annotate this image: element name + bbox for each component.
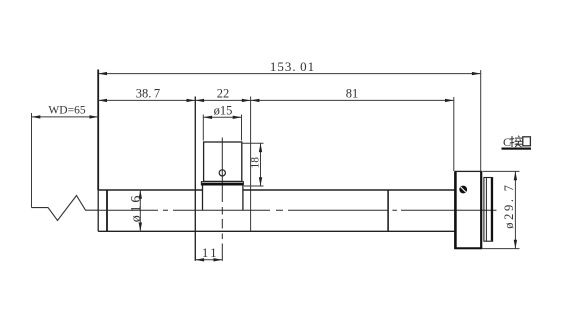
vertical port body <box>204 142 242 181</box>
object plane zigzag <box>32 196 99 221</box>
extension line x=195.3 (between 38.7 and 22, down to 11 dim) <box>194 97 196 261</box>
svg-text:ø15: ø15 <box>214 103 233 117</box>
C-mount block bottom thick edge <box>454 247 482 249</box>
set screw slot highlight <box>461 187 466 192</box>
dimension 18 top extension <box>243 142 264 144</box>
dimension 11 line <box>195 258 222 261</box>
dimension 18 line <box>259 143 262 186</box>
port flange left edge <box>200 181 202 185</box>
label C-mount underline <box>502 148 532 150</box>
C-mount block outline <box>455 171 481 248</box>
svg-text:ø16: ø16 <box>129 193 144 222</box>
svg-text:11: 11 <box>202 246 219 260</box>
C-thread ring inner vertical <box>485 178 487 242</box>
C-thread ring outline <box>484 178 493 242</box>
extension line right main (x=480.7) <box>480 70 482 171</box>
dimension 153.01 line <box>98 72 481 75</box>
dimension dia15 line <box>203 116 241 119</box>
C-mount block right thick edge <box>480 171 482 248</box>
dimension 81 line <box>251 99 454 102</box>
dimension dia29.7 line <box>514 171 517 248</box>
extension line WD left (x=31.5) <box>31 113 33 208</box>
svg-text:153. 01: 153. 01 <box>270 59 315 74</box>
svg-text:38. 7: 38. 7 <box>136 87 160 101</box>
svg-text:22: 22 <box>217 87 230 101</box>
extension line dia15 right <box>241 115 243 141</box>
tube joint vertical x=388 <box>387 190 389 231</box>
port screw circle <box>219 170 225 176</box>
svg-text:ø29. 7: ø29. 7 <box>502 182 516 228</box>
svg-text:C: C <box>503 135 511 149</box>
port flange bottom thick line <box>201 183 243 186</box>
main tube bottom edge <box>98 230 455 232</box>
tube front rim vertical <box>106 190 108 231</box>
svg-text:81: 81 <box>346 87 359 101</box>
dimension WD=65 line <box>32 115 99 118</box>
port centerline (vertical dash-dot) <box>221 138 223 261</box>
extension line x=250.6 (between 22 and 81) <box>250 97 252 232</box>
C-thread ring right thick edge <box>491 178 493 241</box>
svg-text:WD=65: WD=65 <box>48 105 85 117</box>
port flange top line <box>201 181 243 183</box>
main tube top edge right segment <box>243 189 455 191</box>
dia29.7 bottom extension <box>483 248 520 250</box>
dimension 38.7 line <box>98 99 195 102</box>
dimension 22 line <box>195 99 250 102</box>
svg-text:18: 18 <box>250 157 262 169</box>
dimension 18 bottom extension <box>244 185 264 187</box>
extension line left main (x=98.2) <box>97 70 99 191</box>
optical axis centerline (dash-dot) <box>98 209 496 211</box>
port bore left wall below flange <box>202 186 204 211</box>
set screw (filled) <box>459 186 467 194</box>
port flange right edge <box>242 181 244 185</box>
dimension dia16 line (vertical inside tube) <box>139 190 142 231</box>
extension line dia15 left <box>202 115 204 141</box>
label CJK jie (&#25509;) drawn strokes <box>510 136 523 147</box>
main tube top edge left segment <box>98 189 202 191</box>
C-mount block left thick edge <box>454 171 457 248</box>
dia29.7 top extension <box>483 170 520 172</box>
port bore right wall below flange <box>242 186 244 211</box>
main tube left edge <box>97 190 99 231</box>
extension line x=453.8 (right of 81) <box>453 97 455 171</box>
label CJK kou (&#21475;) drawn strokes <box>523 137 531 146</box>
